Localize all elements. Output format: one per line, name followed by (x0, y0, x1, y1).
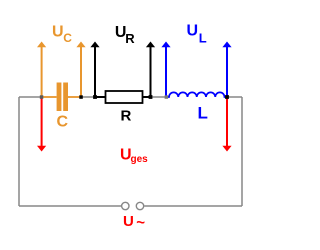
terminal circle left (122, 202, 129, 209)
svg-text:U: U (52, 23, 64, 40)
capacitor C orange lead right (68, 96, 81, 98)
arrow U_C left (orange, up) (41, 47, 43, 97)
junction node at inductor right (225, 95, 229, 99)
svg-text:C: C (57, 114, 69, 131)
capacitor C plates (57, 83, 62, 112)
capacitor C1 orange lead left (42, 96, 57, 98)
svg-text:L: L (198, 104, 208, 123)
wire: right vertical of loop (241, 97, 243, 206)
svg-text:U: U (123, 213, 134, 230)
svg-text:R: R (125, 31, 135, 46)
arrow U_ges left (red, down) (41, 98, 43, 147)
svg-text:R: R (121, 107, 132, 124)
wire: bottom right horizontal from terminal (144, 205, 242, 207)
junction node at capacitor right (79, 95, 83, 99)
wire: gray segment between capacitor and resistor arrows (81, 96, 95, 98)
wire: gray segment between resistor and inductor (151, 96, 167, 98)
arrow U_L left (blue, up) (165, 47, 167, 97)
svg-text:~: ~ (136, 215, 145, 232)
junction node at capacitor left (40, 95, 44, 99)
wire: left vertical of loop (18, 97, 20, 206)
arrow U_L right (blue, up) (226, 47, 228, 97)
junction node at resistor right (149, 95, 153, 99)
svg-text:C: C (63, 31, 72, 45)
arrow U_C right (orange, up) (80, 47, 82, 97)
wire: black lead to resistor (95, 96, 106, 98)
arrow U_R right (black, up) (150, 47, 152, 97)
terminal circle right (136, 202, 143, 209)
arrow U_R left (black, up) (94, 47, 96, 97)
svg-text:L: L (199, 30, 207, 45)
wire: top-right horizontal gray segment (227, 96, 242, 98)
wire: black lead from resistor (143, 96, 151, 98)
resistor R (106, 91, 143, 103)
arrow U_ges right (red, down) (226, 98, 228, 147)
svg-text:U: U (187, 23, 199, 40)
svg-text:ges: ges (131, 154, 149, 165)
inductor L coil (166, 92, 227, 97)
junction node at inductor left (165, 95, 169, 99)
wire: top-left horizontal gray segment (19, 96, 42, 98)
junction node at resistor left (93, 95, 97, 99)
wire: bottom left horizontal to terminal (19, 205, 121, 207)
